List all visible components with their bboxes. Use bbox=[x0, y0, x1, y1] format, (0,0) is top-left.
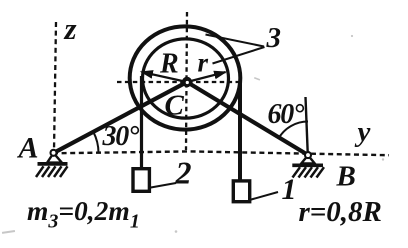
svg-text:2: 2 bbox=[175, 155, 192, 191]
svg-text:1: 1 bbox=[282, 173, 297, 206]
svg-text:r: r bbox=[198, 48, 209, 78]
svg-text:30°: 30° bbox=[102, 121, 140, 152]
svg-text:R: R bbox=[159, 49, 179, 80]
svg-text:m3=0,2m1: m3=0,2m1 bbox=[27, 195, 140, 233]
svg-text:60°: 60° bbox=[268, 99, 305, 130]
svg-text:3: 3 bbox=[266, 22, 282, 54]
svg-text:z: z bbox=[64, 11, 77, 46]
svg-text:C: C bbox=[165, 90, 185, 122]
svg-text:y: y bbox=[355, 116, 371, 148]
svg-text:r=0,8R: r=0,8R bbox=[299, 196, 382, 228]
svg-text:B: B bbox=[336, 161, 356, 193]
svg-text:A: A bbox=[17, 132, 39, 165]
